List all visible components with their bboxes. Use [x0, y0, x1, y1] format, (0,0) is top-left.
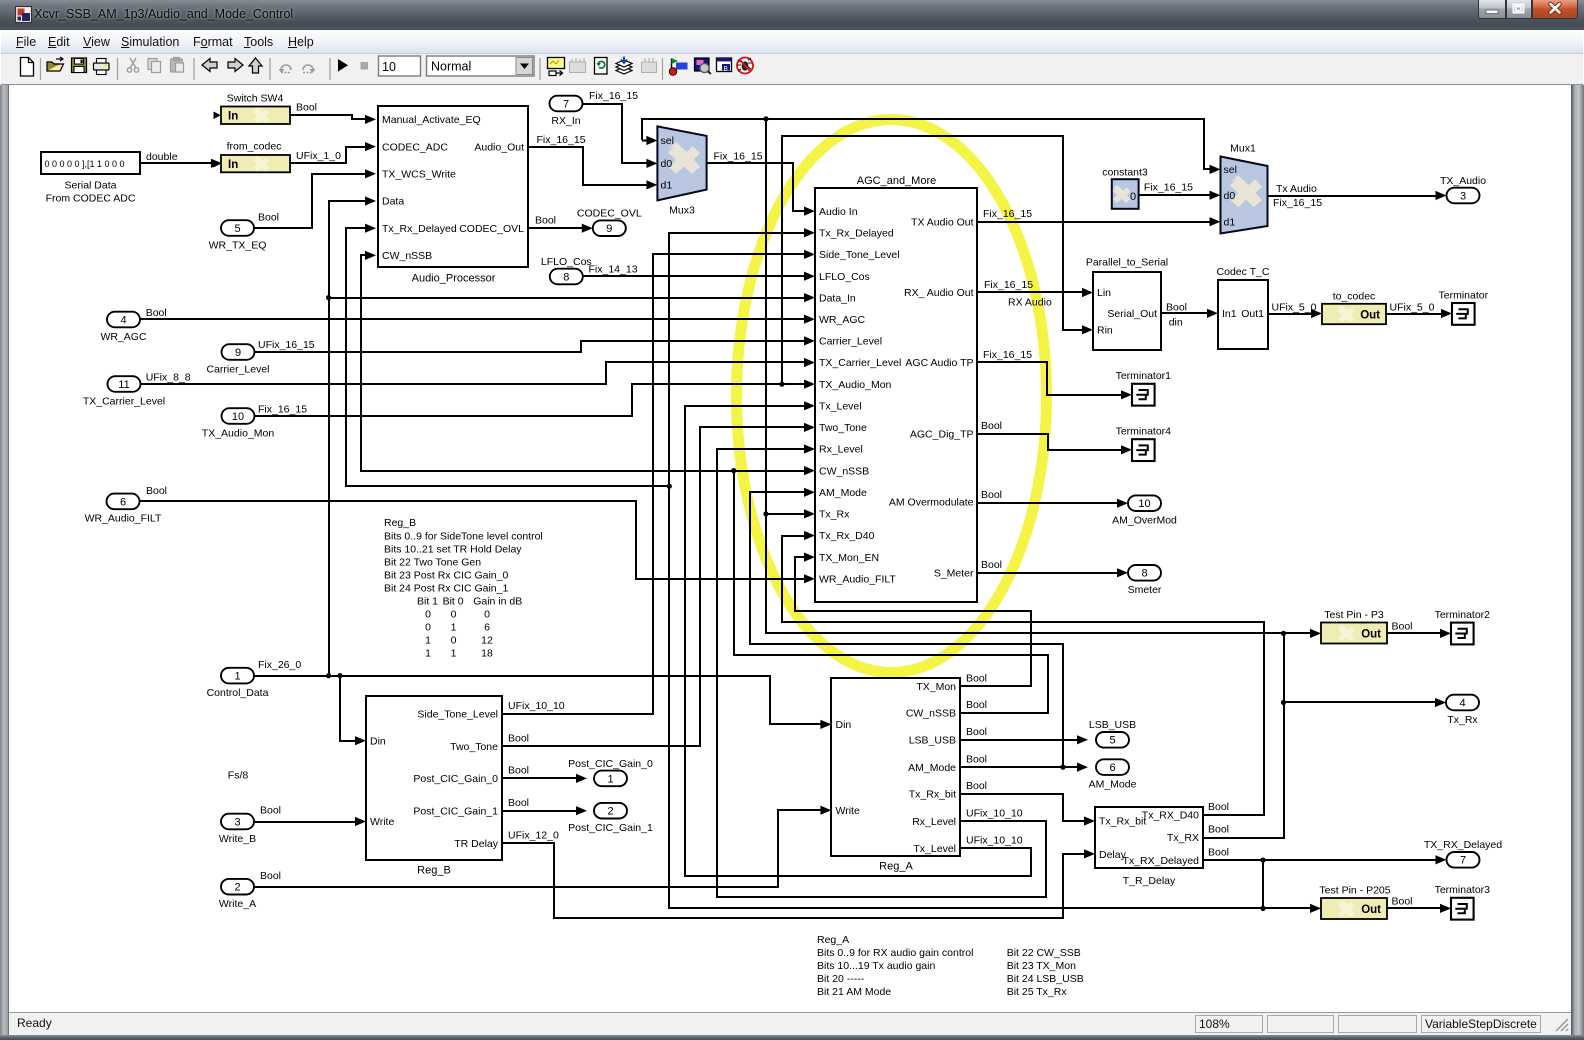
svg-text:Terminator3: Terminator3	[1435, 884, 1491, 896]
terminator Terminator4	[1132, 439, 1155, 461]
svg-text:Bit 22 CW_SSB: Bit 22 CW_SSB	[1007, 947, 1081, 959]
menu bar	[1, 30, 1583, 54]
svg-text:8: 8	[563, 271, 569, 283]
svg-text:AM_Mode: AM_Mode	[819, 487, 867, 499]
wire WR_TX_EQ to TX_WCS_Write	[254, 174, 368, 228]
svg-text:Bit 25 Tx_Rx: Bit 25 Tx_Rx	[1007, 986, 1068, 998]
svg-text:3: 3	[1460, 190, 1466, 202]
svg-text:AM_Mode: AM_Mode	[1089, 778, 1137, 790]
wire Two_Tone to AGC	[502, 427, 806, 746]
svg-text:Tx_Rx: Tx_Rx	[1447, 714, 1478, 726]
svg-text:RX_ Audio Out: RX_ Audio Out	[904, 287, 974, 299]
svg-text:Write_A: Write_A	[219, 898, 256, 910]
svg-text:Lin: Lin	[1097, 287, 1111, 299]
svg-text:7: 7	[1460, 855, 1466, 867]
svg-text:Bool: Bool	[1208, 801, 1229, 813]
wire TX_Carrier_Level to AGC	[140, 362, 806, 384]
svg-text:AM_Mode: AM_Mode	[908, 762, 956, 774]
svg-text:Bool: Bool	[260, 805, 281, 817]
mux Mux3	[657, 126, 706, 200]
inport 4 WR_AGC	[107, 312, 140, 328]
svg-text:Bit 24 Post Rx CIC Gain_1: Bit 24 Post Rx CIC Gain_1	[384, 582, 508, 594]
svg-text:Bit 1: Bit 1	[417, 596, 438, 608]
svg-text:Bool: Bool	[1166, 301, 1187, 313]
svg-text:RX_In: RX_In	[551, 115, 580, 127]
svg-text:din: din	[1169, 317, 1183, 329]
wire Post_CIC_Gain_0 out	[502, 777, 578, 779]
svg-text:Bit 21 AM Mode: Bit 21 AM Mode	[817, 986, 891, 998]
wire Tx_RX_D40 to AGC	[782, 536, 1264, 815]
svg-text:Fix_26_0: Fix_26_0	[258, 659, 301, 671]
annotation highlight ellipse	[737, 120, 1047, 673]
svg-text:Two_Tone: Two_Tone	[819, 422, 867, 434]
svg-text:Bits 10...19 Tx audio gain: Bits 10...19 Tx audio gain	[817, 960, 935, 972]
wire RX_In to Mux3 d0	[582, 104, 649, 163]
svg-text:9: 9	[606, 223, 612, 235]
svg-text:Terminator2: Terminator2	[1435, 609, 1491, 621]
wire LSB_USB out	[960, 739, 1080, 741]
wire Mux3 out to AGC Audio In	[707, 163, 806, 211]
subsystem Codec T_C	[1218, 280, 1268, 349]
svg-text:TX_Carrier_Level: TX_Carrier_Level	[819, 357, 901, 369]
svg-text:d0: d0	[661, 158, 673, 170]
outport 1 Post_CIC_Gain_0	[594, 771, 627, 787]
svg-text:Normal: Normal	[431, 60, 471, 74]
svg-text:Gain in dB: Gain in dB	[473, 596, 522, 608]
wire Carrier_Level to AGC	[254, 341, 806, 352]
svg-text:UFix_8_8: UFix_8_8	[146, 372, 191, 384]
svg-text:Test Pin - P205: Test Pin - P205	[1319, 885, 1390, 897]
svg-text:Tx_Rx_D40: Tx_Rx_D40	[819, 530, 875, 542]
wire Serial_Out to Codec	[1161, 312, 1210, 314]
svg-text:UFix_10_10: UFix_10_10	[966, 807, 1023, 819]
svg-text:Tx_RX_D40: Tx_RX_D40	[1142, 810, 1199, 822]
inport 7 RX_In	[550, 96, 583, 112]
subsystem Reg_A	[831, 678, 960, 856]
svg-text:1: 1	[234, 671, 240, 683]
svg-text:10: 10	[1138, 498, 1150, 510]
svg-text:Reg_A: Reg_A	[817, 934, 849, 946]
gateway-out Test Pin - P3	[1321, 623, 1387, 644]
outport 4 Tx_Rx	[1446, 695, 1479, 711]
svg-text:Codec T_C: Codec T_C	[1217, 266, 1270, 278]
svg-text:d1: d1	[1224, 217, 1236, 229]
svg-text:Bool: Bool	[966, 673, 987, 685]
svg-text:CODEC_OVL: CODEC_OVL	[577, 208, 642, 220]
svg-text:Fix_16_15: Fix_16_15	[983, 208, 1032, 220]
wire Tx_RX_Delayed down branch	[1262, 860, 1264, 908]
wire Write_A to Reg_A	[254, 810, 822, 887]
svg-text:11: 11	[118, 379, 129, 391]
svg-text:LSB_USB: LSB_USB	[909, 735, 956, 747]
svg-text:TX_Audio_Mon: TX_Audio_Mon	[202, 427, 275, 439]
svg-text:12: 12	[481, 635, 493, 647]
wire Mux1 out to TX_Audio	[1268, 195, 1438, 197]
svg-text:Tx_Rx_Delayed: Tx_Rx_Delayed	[819, 227, 894, 239]
svg-text:WR_Audio_FILT: WR_Audio_FILT	[819, 574, 896, 586]
gateway-out to_codec	[1322, 304, 1386, 324]
wire CODEC_OVL	[528, 227, 584, 229]
wire Tx_Level to AGC	[685, 406, 1031, 876]
terminator Terminator1	[1132, 384, 1155, 406]
svg-text:0: 0	[484, 609, 490, 621]
svg-text:WR_AGC: WR_AGC	[100, 331, 147, 343]
outport 9 CODEC_OVL	[593, 220, 626, 236]
svg-text:T_R_Delay: T_R_Delay	[1123, 875, 1176, 887]
wire Control_Data riser x329	[329, 201, 368, 676]
svg-text:Bool: Bool	[1392, 620, 1413, 632]
svg-text:WR_Audio_FILT: WR_Audio_FILT	[85, 513, 162, 525]
wire Audio_Out to Mux3 d1	[528, 147, 649, 185]
svg-text:Bool: Bool	[260, 870, 281, 882]
svg-text:UFix_16_15: UFix_16_15	[258, 339, 315, 351]
svg-text:Bit 23 Post Rx CIC Gain_0: Bit 23 Post Rx CIC Gain_0	[384, 569, 508, 581]
svg-text:Fix_16_15: Fix_16_15	[714, 151, 763, 163]
svg-text:Smeter: Smeter	[1128, 584, 1162, 596]
svg-text:Mux1: Mux1	[1230, 143, 1256, 155]
wire Tx_RX to Test Pin P3	[1284, 632, 1312, 634]
svg-text:sel: sel	[661, 135, 674, 147]
svg-text:Out1: Out1	[1241, 308, 1264, 320]
wire AGC_Dig_TP to Terminator4	[977, 434, 1124, 450]
svg-text:Bit 20 -----: Bit 20 -----	[817, 973, 865, 985]
wire AGC Audio TP to Terminator1	[977, 362, 1124, 395]
svg-text:TX_WCS_Write: TX_WCS_Write	[382, 169, 456, 181]
svg-text:In1: In1	[1222, 308, 1237, 320]
svg-text:Rx_Level: Rx_Level	[912, 816, 956, 828]
wire Control_Data to Reg_B Din	[340, 676, 358, 741]
wire AM_Mode out	[960, 766, 1080, 768]
svg-text:Bit 0: Bit 0	[443, 596, 464, 608]
svg-text:Terminator1: Terminator1	[1116, 370, 1172, 382]
svg-text:Audio_Processor: Audio_Processor	[412, 273, 496, 285]
svg-text:7: 7	[563, 98, 569, 110]
wire Tx_Rx_Delayed to Audio_Processor	[346, 228, 669, 486]
svg-text:TR Delay: TR Delay	[454, 838, 499, 850]
wire Rx_Level to AGC	[717, 449, 1046, 897]
svg-text:Audio In: Audio In	[819, 206, 858, 218]
svg-text:Bool: Bool	[296, 102, 317, 114]
svg-text:Fix_16_15: Fix_16_15	[589, 90, 638, 102]
svg-text:S_Meter: S_Meter	[934, 568, 974, 580]
wire AM_Mode to AGC	[750, 492, 1063, 767]
svg-text:10: 10	[232, 411, 244, 423]
svg-text:Bool: Bool	[535, 214, 556, 226]
inport 5 WR_TX_EQ	[221, 220, 254, 236]
svg-text:TX Audio Out: TX Audio Out	[911, 217, 974, 229]
terminator Terminator3	[1451, 898, 1474, 920]
gateway-in from_codec	[221, 155, 290, 172]
svg-text:Bool: Bool	[508, 797, 529, 809]
subsystem Parallel_to_Serial	[1093, 272, 1161, 350]
svg-text:Side_Tone_Level: Side_Tone_Level	[417, 709, 498, 721]
svg-text:Terminator4: Terminator4	[1116, 426, 1172, 438]
svg-text:5: 5	[1109, 735, 1115, 747]
wire Side_Tone_Level to AGC	[502, 254, 806, 714]
svg-text:10: 10	[382, 60, 396, 74]
svg-text:0: 0	[451, 609, 457, 621]
inport 11 TX_Carrier_Level	[108, 376, 141, 392]
svg-text:AGC_Dig_TP: AGC_Dig_TP	[910, 429, 974, 441]
gateway-out Test Pin - P205	[1321, 898, 1387, 919]
svg-text:Bits 10..21 set TR Hold Delay: Bits 10..21 set TR Hold Delay	[384, 543, 522, 555]
svg-text:WR_AGC: WR_AGC	[819, 314, 866, 326]
svg-text:Carrier_Level: Carrier_Level	[819, 336, 882, 348]
svg-text:In: In	[228, 110, 238, 122]
svg-text:Terminator: Terminator	[1438, 289, 1488, 301]
terminator Terminator	[1452, 303, 1475, 325]
svg-text:Carrier_Level: Carrier_Level	[206, 363, 269, 375]
wire S_Meter to port	[977, 572, 1120, 574]
outport 2 Post_CIC_Gain_1	[594, 803, 627, 819]
svg-text:to_codec: to_codec	[1333, 291, 1376, 303]
subsystem AGC_and_More	[815, 188, 977, 602]
svg-text:TX_Mon_EN: TX_Mon_EN	[819, 552, 879, 564]
svg-text:Bool: Bool	[966, 780, 987, 792]
wire LFLO_Cos to AGC	[583, 275, 806, 277]
svg-text:1: 1	[451, 648, 457, 660]
wire WR_AGC to AGC	[140, 318, 806, 320]
svg-text:8: 8	[1141, 568, 1147, 580]
svg-text:Fix_16_15: Fix_16_15	[984, 279, 1033, 291]
svg-text:Manual_Activate_EQ: Manual_Activate_EQ	[382, 114, 481, 126]
svg-text:WR_TX_EQ: WR_TX_EQ	[209, 239, 267, 251]
wire Switch SW4 to Manual_Activate_EQ	[290, 115, 368, 119]
svg-text:Bool: Bool	[1208, 846, 1229, 858]
svg-text:Reg_B: Reg_B	[384, 517, 416, 529]
wire Tx_RX_Delayed to outport	[1203, 859, 1438, 861]
outport 8 Smeter	[1128, 565, 1161, 581]
svg-text:Data_In: Data_In	[819, 292, 856, 304]
svg-text:Bool: Bool	[1208, 824, 1229, 836]
svg-text:Rx_Level: Rx_Level	[819, 444, 863, 456]
svg-text:1: 1	[425, 648, 431, 660]
wire TX Audio Out to Mux1 d1	[977, 221, 1212, 223]
svg-text:4: 4	[120, 314, 126, 326]
svg-text:Serial Data: Serial Data	[65, 180, 117, 192]
svg-text:Bit 23 TX_Mon: Bit 23 TX_Mon	[1007, 960, 1076, 972]
svg-text:constant3: constant3	[1102, 166, 1148, 178]
inport 3 Write_B	[221, 814, 254, 830]
svg-text:9: 9	[235, 347, 241, 359]
wire Test Pin P205 to Terminator3	[1387, 907, 1442, 909]
svg-text:LFLO_Cos: LFLO_Cos	[819, 271, 870, 283]
svg-text:Bool: Bool	[258, 212, 279, 224]
terminator Terminator2	[1451, 623, 1474, 645]
toolbar	[1, 54, 1583, 85]
svg-text:UFix_5_0: UFix_5_0	[1390, 302, 1435, 314]
wire from_codec to CODEC_ADC	[290, 147, 368, 163]
subsystem Audio_Processor	[378, 106, 528, 267]
wire Tx_RX riser	[766, 119, 1284, 838]
inport 9 Carrier_Level	[222, 344, 255, 360]
svg-text:Tx_Rx_bit: Tx_Rx_bit	[1099, 816, 1146, 828]
gateway-in Switch SW4	[221, 107, 290, 125]
svg-text:Write: Write	[370, 816, 394, 828]
svg-text:4: 4	[1459, 697, 1465, 709]
svg-text:Bool: Bool	[1392, 895, 1413, 907]
wire RX_ Audio Out to Lin	[977, 291, 1084, 293]
svg-text:1: 1	[451, 622, 457, 634]
svg-text:Switch SW4: Switch SW4	[227, 93, 284, 105]
svg-text:Fix_16_15: Fix_16_15	[537, 134, 586, 146]
wire Codec to to_codec	[1268, 313, 1314, 315]
svg-text:Bit 22 Two Tone Gen: Bit 22 Two Tone Gen	[384, 556, 481, 568]
svg-text:RX Audio: RX Audio	[1008, 296, 1052, 308]
svg-text:Fix_16_15: Fix_16_15	[258, 403, 307, 415]
svg-text:Data: Data	[382, 196, 404, 208]
svg-text:Tx_Rx_Delayed: Tx_Rx_Delayed	[382, 223, 457, 235]
svg-text:Bool: Bool	[981, 420, 1002, 432]
svg-text:Side_Tone_Level: Side_Tone_Level	[819, 249, 900, 261]
svg-text:TX_RX_Delayed: TX_RX_Delayed	[1424, 839, 1502, 851]
svg-text:0: 0	[1130, 191, 1136, 203]
svg-text:Tx_Rx: Tx_Rx	[819, 509, 850, 521]
svg-text:Tx_RX: Tx_RX	[1167, 832, 1199, 844]
svg-text:Two_Tone: Two_Tone	[450, 741, 498, 753]
svg-text:B: B	[724, 65, 728, 72]
svg-text:Fix_16_15: Fix_16_15	[983, 349, 1032, 361]
wire WR_Audio_FILT to AGC	[140, 501, 806, 579]
wire Post_CIC_Gain_1 out	[502, 810, 578, 812]
display block Serial Data	[41, 152, 140, 174]
svg-text:Reg_B: Reg_B	[417, 865, 451, 877]
svg-text:Tx_Level: Tx_Level	[913, 843, 956, 855]
svg-text:double: double	[146, 151, 178, 163]
inport 1 Control_Data	[221, 668, 254, 684]
svg-text:Bool: Bool	[146, 307, 167, 319]
svg-text:Mux3: Mux3	[669, 205, 695, 217]
svg-text:Bool: Bool	[966, 699, 987, 711]
status bar	[9, 1012, 1571, 1035]
svg-text:from_codec: from_codec	[227, 141, 282, 153]
svg-text:Bool: Bool	[508, 765, 529, 777]
inport 6 WR_Audio_FILT	[107, 494, 140, 510]
wire Control_Data to Reg_A Din	[254, 676, 822, 724]
svg-text:0: 0	[451, 635, 457, 647]
svg-text:1: 1	[425, 635, 431, 647]
window title bar	[0, 0, 1584, 30]
wire CW_nSSB net	[734, 471, 1048, 713]
wire TX_Audio_Mon to AGC	[254, 384, 806, 416]
wire Tx_Rx to AGC	[766, 513, 806, 515]
svg-text:Tx_RX_Delayed: Tx_RX_Delayed	[1123, 855, 1200, 867]
svg-text:In: In	[228, 159, 238, 171]
svg-text:UFix_1_0: UFix_1_0	[296, 150, 341, 162]
svg-text:d1: d1	[661, 180, 673, 192]
outport 10 AM_OverMod	[1128, 495, 1161, 511]
svg-text:Post_CIC_Gain_0: Post_CIC_Gain_0	[413, 773, 498, 785]
svg-text:Audio_Out: Audio_Out	[474, 141, 524, 153]
svg-text:CODEC_OVL: CODEC_OVL	[459, 223, 524, 235]
svg-text:Din: Din	[370, 735, 386, 747]
svg-text:Post_CIC_Gain_1: Post_CIC_Gain_1	[413, 805, 498, 817]
svg-text:Out: Out	[1361, 904, 1381, 916]
wire Data_In feed	[329, 297, 806, 299]
svg-text:Fs/8: Fs/8	[228, 770, 249, 782]
wire TX_Audio_Mon to Rin riser	[782, 136, 1084, 384]
svg-text:Out: Out	[1360, 309, 1380, 321]
wire AM Overmodulate to port	[977, 502, 1120, 504]
svg-text:5: 5	[234, 223, 240, 235]
svg-text:0: 0	[425, 622, 431, 634]
svg-text:UFix_10_10: UFix_10_10	[508, 700, 565, 712]
wire Tx_RX_Delayed to Test Pin P205	[1263, 907, 1312, 909]
svg-text:Write: Write	[836, 805, 860, 817]
svg-text:Out: Out	[1361, 628, 1381, 640]
svg-text:Bits 0..9 for SideTone level c: Bits 0..9 for SideTone level control	[384, 530, 543, 542]
svg-text:CW_nSSB: CW_nSSB	[906, 708, 956, 720]
subsystem Reg_B	[366, 696, 502, 860]
svg-text:Fix_14_13: Fix_14_13	[589, 264, 638, 276]
svg-text:TX_Carrier_Level: TX_Carrier_Level	[83, 395, 165, 407]
constant constant3	[1112, 179, 1139, 209]
svg-text:6: 6	[484, 622, 490, 634]
svg-text:Reg_A: Reg_A	[879, 861, 913, 873]
outport 7 TX_RX_Delayed	[1447, 852, 1480, 868]
svg-text:Bool: Bool	[146, 485, 167, 497]
svg-text:CW_nSSB: CW_nSSB	[382, 250, 432, 262]
wire constant3 to Mux1 d0	[1139, 194, 1212, 196]
outport 6 AM_Mode	[1096, 759, 1129, 775]
svg-text:Bool: Bool	[508, 732, 529, 744]
inport 2 Write_A	[221, 879, 254, 895]
wire Tx_RX_Delayed bus left	[669, 233, 1263, 908]
wire TR Delay to T_R_Delay	[502, 843, 1086, 918]
svg-text:6: 6	[1109, 762, 1115, 774]
svg-text:Tx_Level: Tx_Level	[819, 401, 862, 413]
outport 3 TX_Audio	[1447, 188, 1480, 204]
svg-text:Parallel_to_Serial: Parallel_to_Serial	[1086, 257, 1168, 269]
svg-text:0 0 0 0 0 ],[1 1 0 0 0: 0 0 0 0 0 ],[1 1 0 0 0	[45, 159, 125, 169]
svg-text:UFix_5_0: UFix_5_0	[1272, 302, 1317, 314]
svg-text:2: 2	[607, 806, 613, 818]
svg-text:sel: sel	[1224, 164, 1237, 176]
svg-text:d0: d0	[1224, 190, 1236, 202]
svg-text:0: 0	[425, 609, 431, 621]
svg-text:Bit 24 LSB_USB: Bit 24 LSB_USB	[1007, 973, 1084, 985]
svg-text:Serial_Out: Serial_Out	[1107, 308, 1157, 320]
svg-text:UFix_12_0: UFix_12_0	[508, 830, 559, 842]
wire sel bus	[642, 119, 1212, 169]
inport 10 TX_Audio_Mon	[222, 408, 255, 424]
svg-text:3: 3	[234, 816, 240, 828]
wire Test Pin P3 to Terminator2	[1387, 632, 1442, 634]
wire TX_Mon to AGC TX_Mon_EN	[795, 557, 1031, 686]
svg-text:Rin: Rin	[1097, 325, 1113, 337]
wire to_codec to Terminator	[1386, 313, 1444, 315]
subsystem T_R_Delay	[1095, 807, 1203, 868]
svg-text:TX_Audio: TX_Audio	[1440, 175, 1486, 187]
svg-text:Bool: Bool	[966, 753, 987, 765]
svg-text:TX_Audio_Mon: TX_Audio_Mon	[819, 379, 892, 391]
svg-text:6: 6	[120, 496, 126, 508]
svg-text:Tx Audio: Tx Audio	[1276, 183, 1317, 195]
wire Serial Data to from_codec	[140, 162, 214, 164]
svg-text:Bits 0..9 for RX audio gain co: Bits 0..9 for RX audio gain control	[817, 947, 973, 959]
svg-text:Write_B: Write_B	[219, 833, 256, 845]
wire CW_nSSB to Audio_Processor	[361, 255, 734, 471]
mux Mux1	[1221, 157, 1268, 234]
svg-text:Bool: Bool	[981, 559, 1002, 571]
svg-text:Din: Din	[836, 719, 852, 731]
svg-text:Fix_16_15: Fix_16_15	[1273, 197, 1322, 209]
svg-text:AGC Audio TP: AGC Audio TP	[905, 357, 973, 369]
svg-text:From CODEC ADC: From CODEC ADC	[46, 193, 136, 205]
svg-text:18: 18	[481, 648, 493, 660]
svg-text:Bool: Bool	[981, 489, 1002, 501]
svg-text:AM_OverMod: AM_OverMod	[1112, 515, 1177, 527]
